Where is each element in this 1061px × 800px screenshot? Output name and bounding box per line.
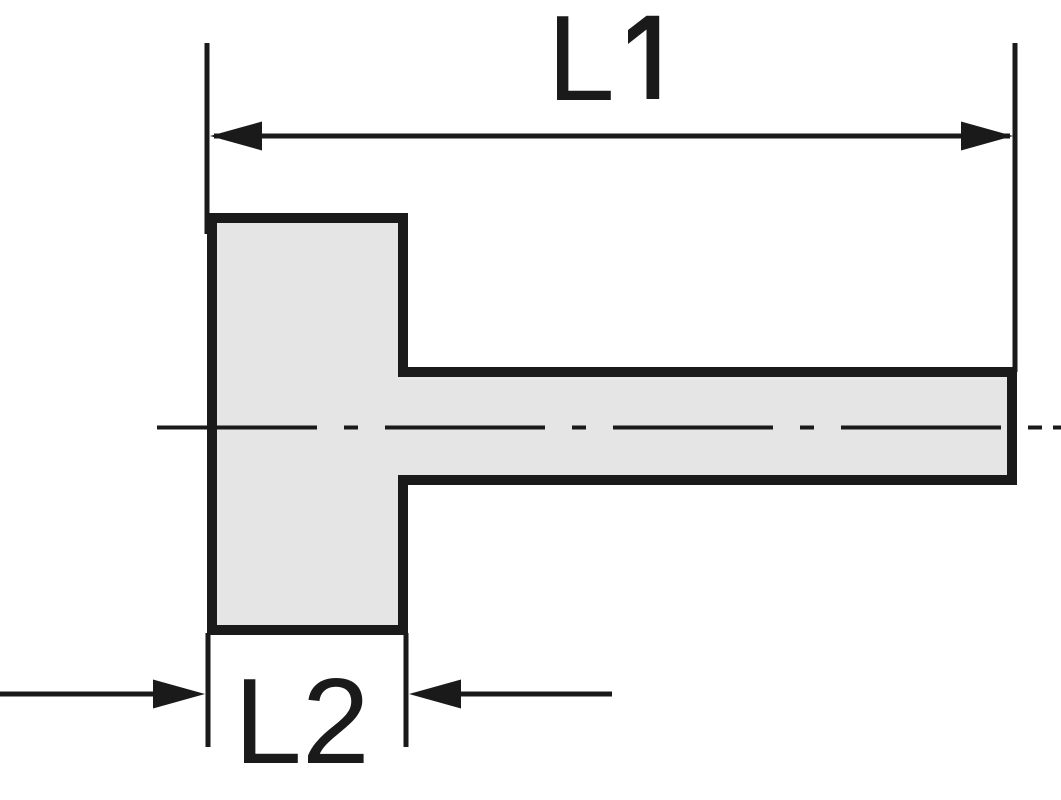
arrowhead L2 left [153,680,205,709]
extension line left (L1) [205,43,210,234]
svg-text:L: L [547,0,615,126]
centerline end dash at canvas edge [1053,426,1061,430]
dimension line L1 [214,134,1010,139]
extension line right (L1) [1013,43,1018,372]
extension line bottom-left (L2) [206,633,211,747]
centerline (dash-dot axis) [157,426,1061,430]
arrowhead L2 right [409,680,461,709]
dimension line L2 right segment [454,692,612,697]
extension line bottom-right (L2) [404,633,409,747]
svg-text:L2: L2 [234,653,370,789]
dimension line L2 left segment [0,692,160,697]
part body (T-shaped fitting cross-section) [212,218,1012,630]
arrowhead L1 left [210,122,262,151]
arrowhead L1 right [961,122,1013,151]
